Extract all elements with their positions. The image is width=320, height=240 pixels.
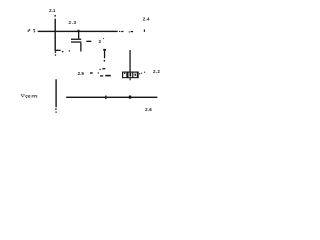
- dots right of box: [139, 73, 140, 74]
- dash below lower rail: [55, 108, 56, 110]
- component box body: [122, 72, 139, 79]
- component box bottom stub: [130, 78, 131, 80]
- capacitor C1 bottom lead: [80, 43, 81, 52]
- wire left rail upper vertical: [55, 19, 56, 51]
- svg-text:2.9: 2.9: [78, 71, 85, 76]
- component box white cell 2: [129, 73, 133, 77]
- tick below 2.4: [144, 30, 145, 32]
- wire left rail lower vertical: [55, 79, 56, 107]
- equation fraction marks: [100, 69, 101, 70]
- wire main top bus: [38, 31, 118, 32]
- capacitor C1 top plate: [71, 39, 81, 40]
- svg-text:2.3: 2.3: [69, 20, 77, 25]
- capacitor C1 top lead: [78, 32, 79, 39]
- capacitor C1 bottom plate: [71, 41, 81, 42]
- dashed ground continuation: [62, 51, 64, 52]
- svg-text:2.1: 2.1: [49, 8, 56, 13]
- equation minus sign: [90, 72, 93, 73]
- junction node at capacitor tap: [78, 30, 80, 32]
- component box white cell 1: [123, 73, 126, 78]
- wire vertical into component box: [129, 50, 130, 72]
- svg-text:2.2: 2.2: [153, 69, 160, 74]
- dot below lower rail: [56, 112, 57, 113]
- wire bottom rail: [66, 97, 157, 98]
- wire dash top of left rail: [55, 15, 56, 17]
- notch in cell 1: [124, 73, 125, 74]
- wire foot of left rail: [55, 50, 61, 51]
- label Vc am (gray): [21, 94, 22, 95]
- minus mark right of capacitor: [86, 41, 91, 42]
- svg-text:2.6: 2.6: [145, 107, 152, 112]
- component box white cell 3: [133, 73, 136, 77]
- dashes below left rail foot: [55, 51, 56, 53]
- svg-text:2.4: 2.4: [143, 17, 150, 22]
- junction dot on bottom rail: [129, 96, 131, 99]
- current arrow marker: [103, 49, 106, 51]
- wire dashed continuation of bus: [119, 31, 120, 32]
- tick junction on bottom rail: [105, 96, 106, 100]
- source marks left of bus: [29, 29, 30, 30]
- wire through cell 2: [130, 73, 132, 77]
- dot in cell 3: [135, 74, 136, 76]
